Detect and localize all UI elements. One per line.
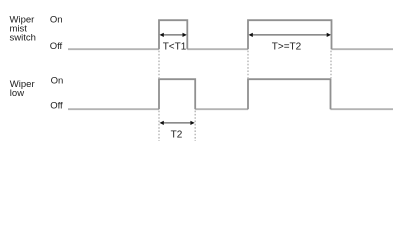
wire: top off baseline segment 3 (332, 48, 394, 50)
wire: bottom off baseline segment 2 (195, 108, 248, 110)
pulse 2 of wiper mist switch (T>=T2) (248, 20, 332, 49)
dotted connector at x=248 (pulse 2 rising edges) (247, 51, 249, 78)
pulse 2 of wiper low (248, 79, 331, 109)
arrow T<T1 (160, 33, 187, 37)
arrow T>=T2 (249, 33, 332, 37)
svg-text:switch: switch (10, 33, 36, 44)
label: Wiper mist switch (10, 15, 36, 44)
pulse 1 of wiper mist switch (T<T1) (159, 20, 187, 49)
dotted measure line at x=159 (below wiper-low pulse 1 left edge) (158, 111, 160, 141)
wire: bottom off baseline segment 3 (331, 108, 394, 110)
svg-text:low: low (10, 88, 24, 99)
arrow T2 (160, 121, 195, 125)
wire: top off baseline segment 1 (68, 48, 159, 50)
svg-text:Off: Off (50, 101, 63, 112)
pulse 1 of wiper low (duration T2) (159, 79, 195, 109)
wire: top off baseline segment 2 (187, 48, 248, 50)
label: Wiper low (10, 79, 35, 99)
svg-text:T2: T2 (171, 129, 183, 140)
svg-text:Off: Off (50, 41, 63, 52)
wire: bottom off baseline segment 1 (68, 108, 159, 110)
dotted connector at x=159 (top pulse 1 rising edge to wiper-low rising edge) (158, 51, 160, 78)
dotted connector at x=331 (pulse 2 falling edges) (330, 51, 332, 78)
svg-text:T<T1: T<T1 (163, 41, 187, 52)
svg-text:On: On (51, 76, 64, 87)
svg-text:On: On (50, 15, 63, 26)
dotted measure line at x=195 (below wiper-low pulse 1 right edge) (194, 111, 196, 141)
svg-text:T>=T2: T>=T2 (272, 42, 302, 53)
